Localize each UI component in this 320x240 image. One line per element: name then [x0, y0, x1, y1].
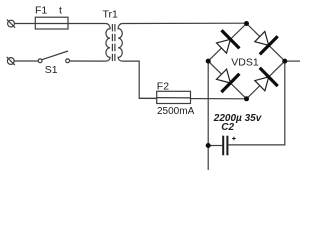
diode D2 (upper-right, anode at top node) [255, 31, 278, 54]
capacitor C2 plates [223, 136, 227, 156]
wire: capacitor left plate to negative rail [208, 145, 222, 147]
diode D3 (lower-left, anode at left node) [217, 69, 240, 92]
node dot: bridge right [282, 59, 287, 64]
bridge VDS1: edge left-top [208, 24, 246, 62]
wire: secondary top to bridge top node [122, 22, 246, 24]
svg-text:VDS1: VDS1 [231, 56, 259, 68]
transformer Tr1 core [112, 24, 115, 61]
svg-text:Tr1: Tr1 [103, 9, 119, 21]
switch S1 [38, 51, 69, 63]
fuse F2 [157, 91, 191, 103]
wire: bridge left node down off bottom edge (negative rail) [207, 61, 209, 170]
transformer Tr1 secondary winding [118, 24, 122, 62]
transformer Tr1 primary winding [106, 24, 110, 62]
wire top: terminal X1 to transformer primary top [14, 23, 106, 25]
svg-text:t: t [59, 5, 62, 17]
wire: bridge right node down and left to capacitor [228, 61, 284, 145]
wire: through fuse F2 to bridge bottom node [139, 97, 246, 99]
node dot: bridge left [206, 59, 211, 64]
node dot: bridge bottom [244, 96, 249, 101]
svg-text:2200µ 35v: 2200µ 35v [213, 113, 263, 124]
bridge VDS1: edge top-right [247, 24, 285, 62]
wire: switch right contact to transformer primary bottom [70, 60, 106, 62]
node dot: bridge top [244, 21, 249, 26]
wire: bridge right node to right edge [285, 60, 300, 62]
bridge VDS1: edge left-bottom [208, 61, 246, 99]
svg-text:C2: C2 [221, 122, 234, 133]
fuse F1 [35, 17, 68, 29]
svg-text:S1: S1 [45, 64, 58, 76]
wire: secondary bottom, right then down to fuse F2 level [122, 61, 156, 98]
wire: terminal X2 to switch left contact [14, 60, 38, 62]
svg-text:2500mA: 2500mA [157, 106, 195, 117]
terminal X2 (lower left, circle with slash) [7, 57, 15, 65]
capacitor polarity plus sign [232, 137, 236, 141]
bridge VDS1: edge bottom-right [247, 61, 285, 99]
node dot: capacitor junction on negative rail [206, 143, 211, 148]
diode D1 (upper-left, anode at left node) [217, 30, 240, 53]
svg-text:F2: F2 [157, 80, 169, 92]
diode D4 (lower-right, anode at bottom node) [255, 68, 278, 91]
svg-text:F1: F1 [35, 4, 47, 16]
terminal X1 (top left, circle with slash) [7, 20, 15, 28]
